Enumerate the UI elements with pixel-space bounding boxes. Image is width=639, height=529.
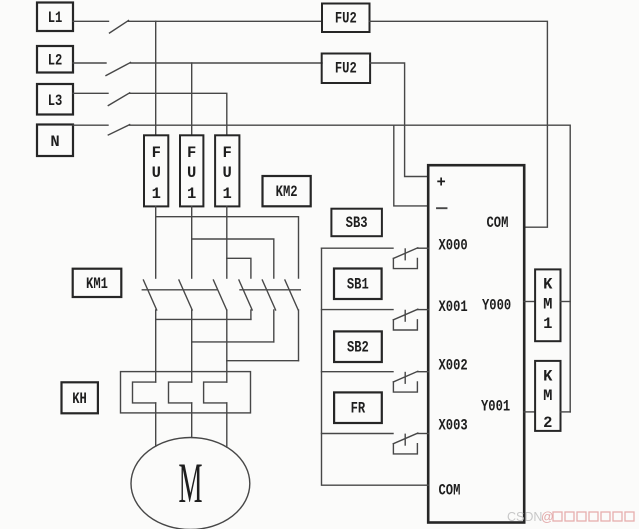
label box KM1 bbox=[73, 269, 122, 297]
wire motor lead U bbox=[155, 403, 157, 446]
coil KM2 bbox=[535, 361, 560, 432]
label box SB1 bbox=[334, 269, 382, 300]
svg-text:FR: FR bbox=[351, 400, 366, 418]
label box FR bbox=[334, 392, 382, 423]
wire fuse3 to KM1 pole3 bbox=[226, 206, 228, 278]
fuse FU2 a bbox=[322, 4, 370, 33]
svg-text:FU2: FU2 bbox=[335, 60, 357, 78]
wire L2 lead bbox=[73, 62, 106, 64]
svg-text:Y001: Y001 bbox=[481, 397, 510, 415]
svg-text:L3: L3 bbox=[48, 92, 63, 110]
wire N row bbox=[130, 125, 571, 412]
svg-text:1: 1 bbox=[223, 185, 232, 203]
heater element phase U bbox=[133, 382, 156, 403]
fuse FU1 a bbox=[144, 135, 168, 206]
wire merge phase U bbox=[156, 318, 251, 320]
PLC box bbox=[428, 165, 524, 522]
wire L1 lead bbox=[73, 20, 109, 22]
svg-text:X000: X000 bbox=[439, 237, 468, 255]
svg-text:X001: X001 bbox=[439, 298, 468, 316]
wire L1 drop to FU1-1 bbox=[155, 21, 157, 135]
switch QS pole N bbox=[108, 125, 129, 135]
svg-text:+: + bbox=[437, 174, 446, 192]
motor M bbox=[131, 438, 250, 529]
wire fuse1 to KM1 pole1 bbox=[155, 206, 157, 278]
svg-text:1: 1 bbox=[152, 185, 161, 203]
coil KM1 bbox=[535, 269, 560, 341]
wire X001 lead bbox=[322, 309, 394, 311]
wire L3 lead bbox=[73, 92, 108, 94]
wire N tap to minus terminal bbox=[394, 125, 428, 206]
terminal L1 bbox=[37, 3, 73, 32]
wire FU2b output to plus terminal bbox=[370, 63, 428, 177]
svg-text:FU2: FU2 bbox=[335, 10, 357, 28]
svg-text:F: F bbox=[223, 144, 232, 162]
svg-text:SB2: SB2 bbox=[347, 339, 369, 357]
wire fuse2 to KM1 pole2 bbox=[191, 206, 193, 278]
contact KM1 pole2 bbox=[179, 280, 192, 342]
svg-text:F: F bbox=[187, 144, 196, 162]
svg-text:U: U bbox=[187, 164, 196, 182]
fuse FU1 b bbox=[180, 135, 203, 206]
svg-text:SB1: SB1 bbox=[347, 276, 369, 294]
svg-text:1: 1 bbox=[543, 315, 552, 333]
contact KM1 pole3 bbox=[213, 280, 226, 361]
wire merge phase V bbox=[192, 341, 274, 343]
svg-text:M: M bbox=[543, 387, 552, 405]
fuse FU2 b bbox=[322, 54, 370, 84]
svg-text:U: U bbox=[223, 164, 232, 182]
pushbutton SB2 contact bbox=[393, 371, 428, 392]
wire L3 row bbox=[130, 93, 227, 135]
wire X000 lead bbox=[322, 247, 394, 249]
svg-text:N: N bbox=[50, 133, 59, 151]
svg-text:KM2: KM2 bbox=[276, 183, 298, 201]
contact KM2 pole3 bbox=[285, 280, 299, 361]
contact FR normally-closed bbox=[393, 433, 428, 454]
contact KM1 pole1 bbox=[143, 280, 156, 319]
pushbutton SB3 contact bbox=[393, 248, 428, 269]
svg-text:U: U bbox=[152, 164, 161, 182]
wire Y000 to KM1 coil bbox=[524, 301, 535, 303]
svg-text:X002: X002 bbox=[439, 357, 468, 375]
svg-text:L2: L2 bbox=[48, 52, 63, 70]
svg-text:KH: KH bbox=[72, 390, 87, 408]
svg-text:COM: COM bbox=[487, 214, 509, 232]
svg-text:COM: COM bbox=[439, 482, 461, 500]
svg-text:1: 1 bbox=[187, 185, 196, 203]
fuse FU1 c bbox=[215, 135, 239, 206]
label box KM2 bbox=[263, 176, 311, 206]
wire phase1 branch to KM2 pole3 bbox=[156, 217, 299, 278]
svg-text:X003: X003 bbox=[439, 416, 468, 434]
wire merge phase W bbox=[227, 360, 299, 362]
terminal L2 bbox=[37, 46, 73, 73]
wire phase3 branch to KM2 pole1 bbox=[227, 258, 251, 278]
switch QS pole L1 bbox=[110, 21, 129, 34]
input common bus bbox=[322, 248, 429, 485]
wire Y001 to KM2 coil bbox=[524, 411, 535, 413]
wire KM2 coil to N line bbox=[561, 411, 571, 413]
wire phase V down to KH bbox=[191, 342, 193, 382]
wire FU2a output to COM bbox=[370, 21, 548, 227]
svg-text:KM1: KM1 bbox=[86, 275, 108, 293]
wire phase U down to KH bbox=[155, 319, 157, 382]
svg-text:F: F bbox=[152, 144, 161, 162]
terminal L3 bbox=[37, 84, 73, 115]
svg-text:L1: L1 bbox=[48, 9, 63, 27]
svg-text:Y000: Y000 bbox=[482, 297, 511, 315]
heater element phase V bbox=[169, 382, 192, 403]
watermark @studio glyphs bbox=[541, 510, 634, 524]
wire L2 row to FU2 bbox=[131, 62, 323, 64]
svg-text:SB3: SB3 bbox=[346, 214, 368, 232]
thermal relay KH outline bbox=[121, 372, 251, 413]
label box SB3 bbox=[331, 209, 382, 237]
label box KH bbox=[62, 382, 98, 413]
contact KM2 pole1 bbox=[239, 280, 252, 319]
wire phase2 branch to KM2 pole2 bbox=[192, 239, 274, 278]
wire X003 lead bbox=[322, 433, 394, 435]
wire phase W down to KH bbox=[226, 361, 228, 382]
wire L2 drop to FU1-2 bbox=[191, 63, 193, 135]
wire L1 row to FU2 bbox=[129, 20, 323, 22]
svg-text:M: M bbox=[179, 452, 203, 515]
PLC terminal - bbox=[437, 207, 447, 209]
svg-text:K: K bbox=[543, 276, 553, 294]
heater element phase W bbox=[204, 382, 227, 403]
switch QS pole L3 bbox=[108, 93, 129, 106]
wire KM1 coil to N line bbox=[561, 301, 571, 303]
svg-text:2: 2 bbox=[543, 414, 552, 432]
wire motor lead W bbox=[226, 403, 228, 447]
switch QS pole L2 bbox=[106, 63, 131, 76]
contact KM2 pole2 bbox=[262, 280, 275, 342]
svg-text:M: M bbox=[543, 296, 552, 314]
linkage KM2 bbox=[240, 289, 300, 291]
svg-text:@: @ bbox=[541, 510, 554, 524]
wire motor lead V bbox=[191, 403, 193, 438]
svg-text:K: K bbox=[543, 367, 553, 385]
linkage KM1 bbox=[142, 289, 217, 291]
label box SB2 bbox=[334, 331, 382, 362]
wire X002 lead bbox=[322, 371, 394, 373]
pushbutton SB1 contact bbox=[393, 309, 428, 330]
wire N lead bbox=[73, 124, 108, 126]
svg-text:CSDN: CSDN bbox=[507, 510, 542, 524]
terminal N bbox=[37, 125, 73, 157]
